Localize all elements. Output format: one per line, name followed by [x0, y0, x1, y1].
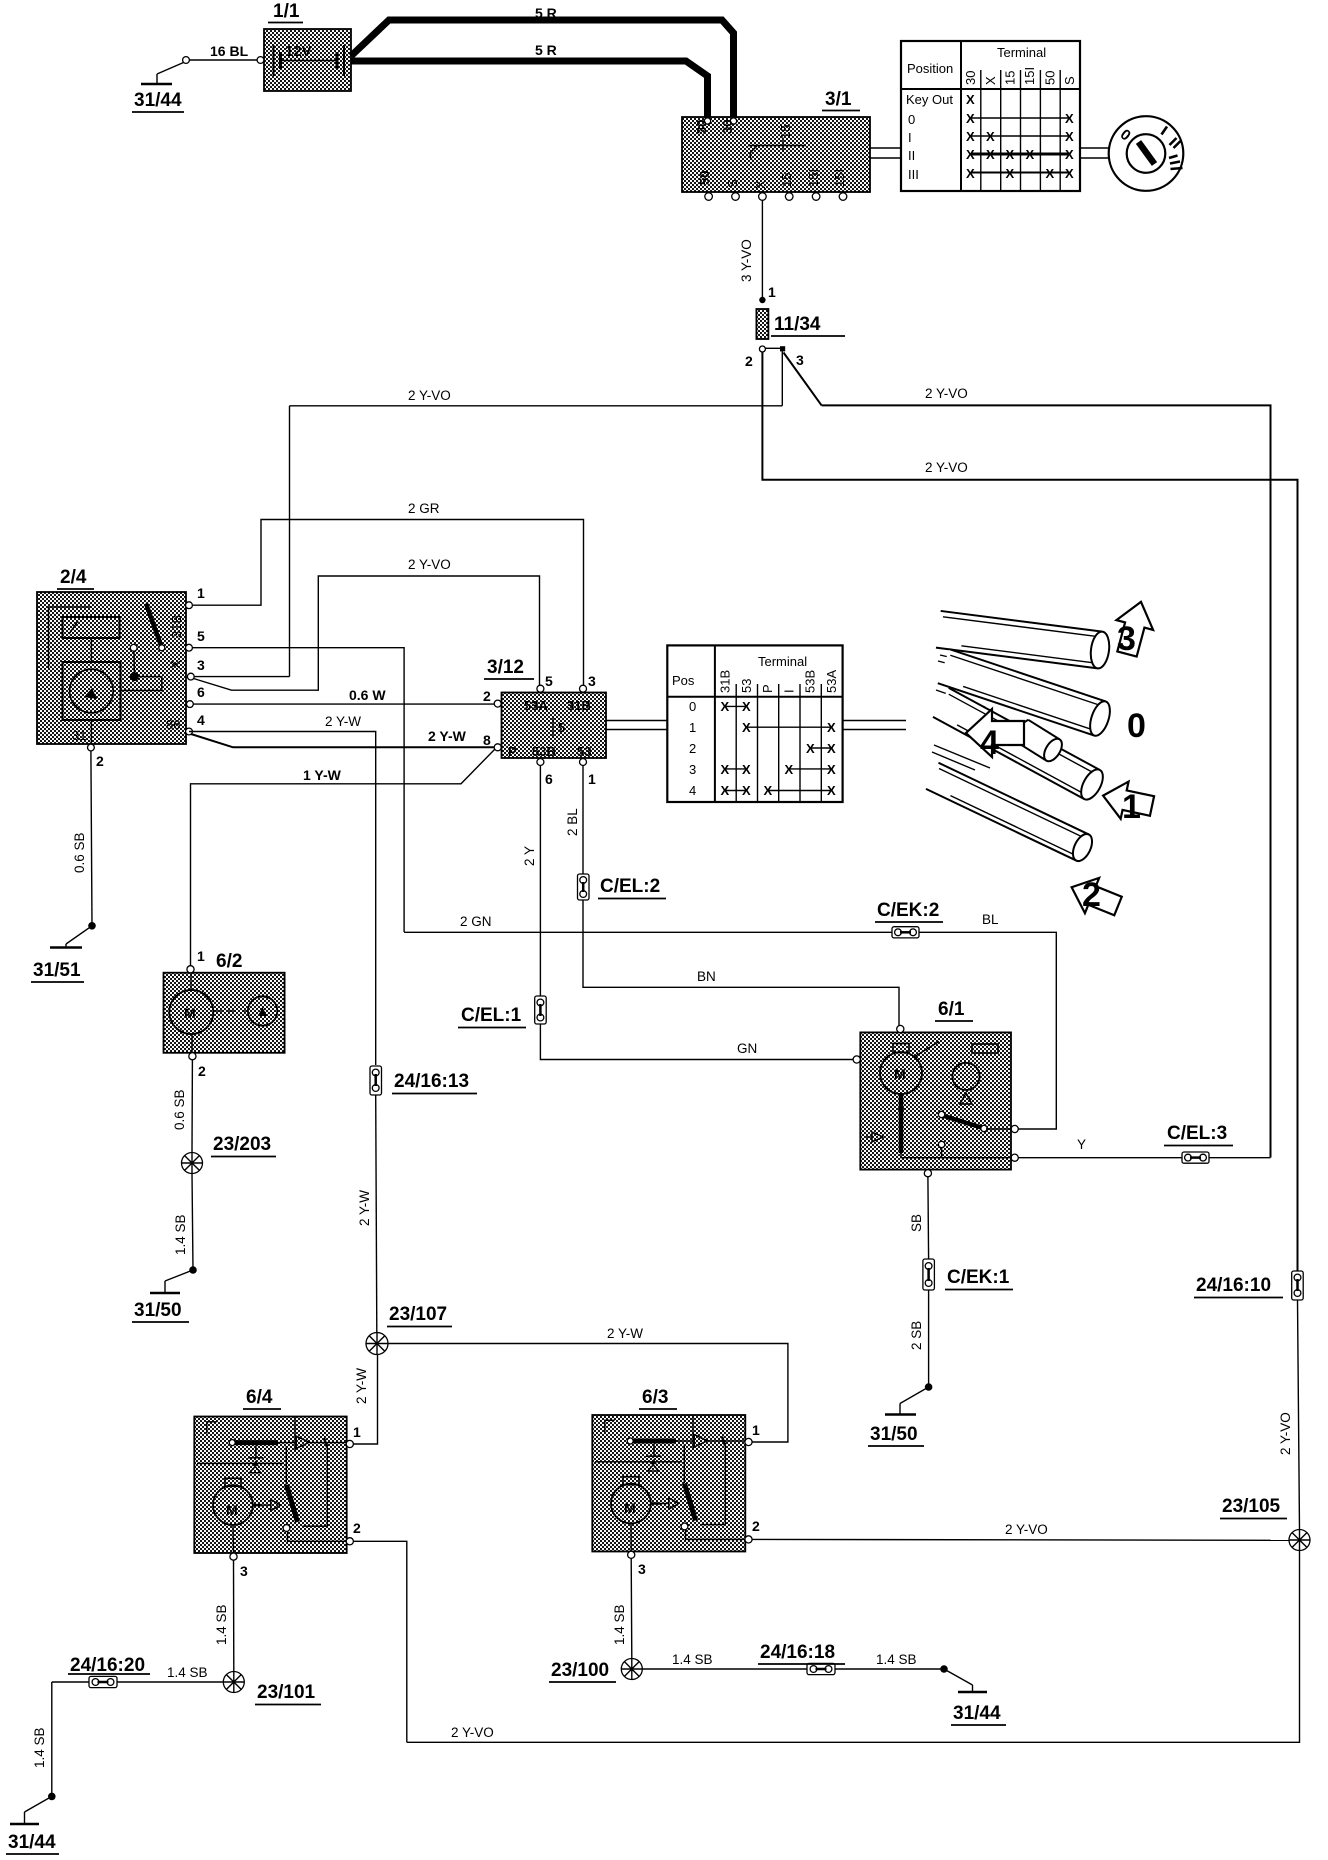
svg-text:X: X [742, 783, 751, 798]
svg-text:BL: BL [982, 912, 999, 927]
svg-text:2 Y-W: 2 Y-W [325, 714, 361, 729]
ground 31/50 left [132, 1266, 197, 1322]
ignition key [1109, 116, 1184, 191]
svg-text:X: X [827, 741, 836, 756]
svg-text:Terminal: Terminal [997, 45, 1046, 60]
svg-text:2 Y-W: 2 Y-W [428, 728, 467, 744]
svg-text:3: 3 [588, 673, 596, 689]
wire 2 SB to ground [928, 1290, 930, 1387]
svg-text:1: 1 [197, 948, 205, 964]
splice 23/101 [223, 1672, 244, 1693]
wire 2 GN / BL [404, 932, 1056, 1129]
svg-text:2: 2 [689, 741, 696, 756]
wire to ground 31/44 bl [51, 1682, 53, 1796]
svg-text:X: X [1065, 111, 1074, 126]
wiper arrow 1 [1099, 777, 1156, 825]
svg-text:3: 3 [689, 762, 696, 777]
svg-text:3 Y-VO: 3 Y-VO [739, 239, 754, 282]
svg-text:M: M [226, 1502, 238, 1518]
svg-text:X: X [1006, 147, 1015, 162]
svg-text:X: X [966, 129, 975, 144]
wire 6/4 pin2 to bottom YVO [353, 1541, 406, 1742]
svg-text:S: S [1062, 76, 1077, 85]
svg-text:2 Y-VO: 2 Y-VO [1278, 1412, 1293, 1455]
connector 24/16:10 [1292, 1271, 1304, 1300]
svg-text:31/50: 31/50 [870, 1424, 918, 1445]
svg-text:X: X [966, 166, 975, 181]
svg-text:4: 4 [689, 783, 696, 798]
svg-text:M: M [624, 1500, 636, 1516]
svg-text:53B: 53B [803, 670, 818, 693]
svg-text:86: 86 [166, 717, 180, 732]
wire 23/105 to bottom [407, 1551, 1300, 1743]
wire 2 Y-VO left drop [289, 406, 291, 677]
label C/EK:2 [875, 900, 943, 922]
svg-text:1.4 SB: 1.4 SB [173, 1214, 188, 1255]
fuse 11/34 [756, 309, 768, 339]
label 23/107 [387, 1304, 452, 1327]
splice 23/100 [621, 1659, 642, 1680]
svg-text:2: 2 [1082, 876, 1101, 914]
svg-text:2/4: 2/4 [60, 567, 87, 588]
svg-text:II: II [908, 148, 915, 163]
svg-text:X: X [721, 762, 730, 777]
svg-text:31/44: 31/44 [8, 1832, 56, 1853]
svg-text:4: 4 [197, 712, 205, 728]
svg-text:50: 50 [697, 171, 712, 185]
svg-text:15I: 15I [1022, 67, 1037, 85]
ground 31/44 bottom left [6, 1793, 59, 1854]
ground 31/44 bottom right [940, 1665, 1006, 1725]
svg-text:Key Out: Key Out [906, 92, 953, 107]
connector C/EL:1 [535, 996, 547, 1024]
svg-text:C/EK:2: C/EK:2 [877, 900, 939, 921]
svg-text:31/44: 31/44 [953, 1703, 1001, 1724]
svg-text:31B: 31B [169, 615, 184, 638]
wire BN [583, 900, 899, 1026]
svg-text:X: X [827, 762, 836, 777]
wiper sketch rod 0 [938, 649, 1114, 738]
svg-text:Pos: Pos [672, 673, 695, 688]
svg-text:0.6 SB: 0.6 SB [72, 832, 87, 873]
svg-text:X: X [721, 699, 730, 714]
splice 23/107 [366, 1333, 388, 1355]
svg-text:X: X [986, 129, 995, 144]
svg-text:X: X [785, 762, 794, 777]
svg-text:53A: 53A [524, 698, 548, 713]
wire 2 BL from 3/12 pin1 [582, 766, 584, 875]
connector C/EK:2 [892, 927, 919, 938]
svg-text:31/51: 31/51 [33, 960, 81, 981]
svg-text:X: X [983, 76, 998, 85]
wire splice to 24/16:20 [52, 1681, 224, 1683]
position table [901, 41, 1080, 191]
svg-text:X: X [1065, 166, 1074, 181]
pos table 3/12 [667, 645, 842, 802]
ground 31/51 [31, 922, 96, 982]
wire right YVO down [1298, 1300, 1300, 1530]
svg-text:2 Y-VO: 2 Y-VO [925, 460, 968, 475]
wire node2 to node3 [765, 347, 780, 349]
svg-text:31B: 31B [718, 670, 733, 693]
ground 31/44 battery [132, 63, 184, 113]
cable 5R upper [351, 20, 734, 117]
svg-text:P: P [508, 744, 517, 759]
svg-text:23/203: 23/203 [213, 1134, 271, 1155]
svg-text:3: 3 [240, 1563, 248, 1579]
svg-text:30: 30 [720, 120, 735, 134]
label 24/16:20 [68, 1655, 150, 1676]
svg-text:31: 31 [72, 728, 86, 743]
svg-text:23/101: 23/101 [257, 1682, 316, 1703]
svg-text:53: 53 [577, 744, 591, 759]
wire 2 Y-W down to splice [376, 1095, 377, 1332]
relay 2/4 [37, 592, 194, 751]
svg-text:2 BL: 2 BL [565, 808, 580, 836]
label C/EK:1 [945, 1267, 1013, 1290]
svg-text:X: X [742, 720, 751, 735]
svg-text:1.4 SB: 1.4 SB [672, 1652, 713, 1667]
svg-text:M: M [894, 1066, 906, 1082]
svg-text:15: 15 [1003, 71, 1018, 85]
rear washer motor 6/3 label [639, 1387, 677, 1409]
svg-text:2 Y-VO: 2 Y-VO [925, 386, 968, 401]
washer motor 6/2 label [213, 951, 251, 973]
svg-text:31B: 31B [567, 698, 591, 713]
splice 23/105 [1289, 1530, 1310, 1551]
label 23/100 [549, 1660, 616, 1682]
svg-text:6/1: 6/1 [938, 999, 965, 1020]
svg-text:2 GN: 2 GN [460, 914, 492, 929]
svg-text:15: 15 [779, 173, 794, 187]
svg-text:2: 2 [353, 1520, 361, 1536]
wire pin4 to 24/16:13 [189, 732, 376, 1066]
wire 1 Y-W [191, 749, 496, 966]
svg-text:2 GR: 2 GR [408, 501, 440, 516]
label 23/105 [1220, 1496, 1287, 1519]
wire 2 Y-VO left [290, 405, 783, 407]
svg-text:0: 0 [689, 699, 696, 714]
wire 2 Y from 3/12 pin6 [539, 766, 541, 997]
wire GN to 6/1 [540, 1024, 853, 1060]
wire pin2 down [762, 352, 1297, 1271]
svg-text:Position: Position [907, 61, 953, 76]
svg-text:2: 2 [483, 688, 491, 704]
wiper switch 3/12 [494, 685, 606, 765]
connector 24/16:20 [89, 1676, 117, 1687]
svg-text:15I: 15I [806, 169, 821, 187]
wire 6/3 pin3 down [630, 1558, 633, 1658]
svg-text:15: 15 [778, 125, 793, 139]
svg-text:C/EK:1: C/EK:1 [947, 1267, 1010, 1288]
svg-text:24/16:13: 24/16:13 [394, 1071, 469, 1092]
svg-text:15I: 15I [832, 169, 847, 187]
wire pin3 to left Y-VO [194, 676, 289, 678]
svg-text:I: I [908, 130, 912, 145]
wire pos table to wiper sketch [843, 721, 906, 730]
battery 1/1 label [268, 1, 303, 23]
wire 3/1 to position table [870, 148, 901, 158]
svg-text:3/1: 3/1 [825, 89, 852, 110]
wiper switch 3/12 label [484, 657, 534, 679]
svg-text:X: X [721, 783, 730, 798]
svg-text:X: X [742, 762, 751, 777]
svg-text:2: 2 [745, 353, 753, 369]
svg-text:1 Y-W: 1 Y-W [303, 767, 342, 783]
wire splice to 24/16:18 [642, 1668, 944, 1670]
svg-text:6/4: 6/4 [246, 1387, 273, 1408]
svg-text:11/34: 11/34 [774, 314, 821, 335]
svg-text:Terminal: Terminal [758, 654, 807, 669]
svg-text:5: 5 [545, 673, 553, 689]
svg-text:53: 53 [739, 679, 754, 693]
label C/EL:3 [1164, 1123, 1233, 1146]
svg-text:2: 2 [198, 1063, 206, 1079]
svg-text:6/3: 6/3 [642, 1387, 668, 1408]
svg-text:23/107: 23/107 [389, 1304, 447, 1325]
connector 24/16:18 [807, 1663, 835, 1674]
wire table to key [1080, 148, 1109, 158]
wire 1.4 SB to ground [192, 1174, 193, 1271]
svg-text:0.6 SB: 0.6 SB [172, 1089, 187, 1130]
wire 0.6 SB pin2 down [91, 751, 92, 926]
wiper motor 6/1 [853, 1025, 1018, 1176]
wire 0.6 W [193, 703, 494, 705]
label C/EL:1 [458, 1005, 526, 1028]
svg-text:2 Y-W: 2 Y-W [357, 1190, 372, 1226]
ignition switch 3/1 [682, 117, 870, 200]
label 24/16:10 [1194, 1275, 1283, 1298]
wiper sketch rod 3 [936, 611, 1111, 670]
label 23/101 [255, 1682, 321, 1705]
svg-text:3: 3 [197, 657, 205, 673]
wire Y with C/EL:3 [1018, 1157, 1270, 1159]
svg-text:3: 3 [638, 1561, 646, 1577]
rear wiper motor 6/4 [194, 1417, 353, 1561]
svg-text:2 Y-W: 2 Y-W [354, 1368, 369, 1404]
svg-text:X: X [1046, 166, 1055, 181]
svg-text:GN: GN [737, 1041, 757, 1056]
svg-text:23/100: 23/100 [551, 1660, 609, 1681]
svg-text:X: X [966, 147, 975, 162]
wiper sketch rod 2 [926, 763, 1096, 864]
node 1 of 11/34 [759, 297, 765, 303]
svg-text:0: 0 [908, 112, 915, 127]
svg-text:X: X [806, 741, 815, 756]
svg-text:X: X [168, 660, 183, 669]
svg-text:1: 1 [588, 771, 596, 787]
svg-text:X: X [1006, 166, 1015, 181]
connector C/EK:1 [923, 1259, 935, 1290]
svg-text:X: X [764, 783, 773, 798]
svg-text:5 R: 5 R [535, 5, 557, 21]
svg-text:I: I [782, 689, 797, 693]
battery 1/1 [264, 29, 351, 91]
svg-text:2 Y-VO: 2 Y-VO [1005, 1522, 1048, 1537]
svg-text:1: 1 [353, 1424, 361, 1440]
wiper sketch rod 1 [933, 688, 1107, 803]
svg-text:1/1: 1/1 [273, 1, 300, 22]
svg-text:24/16:10: 24/16:10 [1196, 1275, 1271, 1296]
svg-text:2 Y-VO: 2 Y-VO [408, 388, 451, 403]
svg-text:1.4 SB: 1.4 SB [214, 1604, 229, 1645]
wire 16 BL [183, 43, 264, 63]
wiper arrow 2 [1065, 870, 1126, 924]
wire node3 diagonal [784, 353, 822, 406]
svg-text:3: 3 [796, 352, 804, 368]
relay 2/4 label [57, 567, 94, 589]
svg-text:2 SB: 2 SB [909, 1321, 924, 1350]
connector C/EL:3 [1182, 1152, 1209, 1163]
label 24/16:18 [758, 1642, 845, 1664]
splice 23/203 [182, 1153, 203, 1174]
wire pin3 diagonal branch [194, 576, 540, 690]
svg-text:1: 1 [768, 284, 776, 300]
wire splice to 6/3 pin1 [388, 1344, 788, 1443]
svg-text:31/50: 31/50 [134, 1300, 182, 1321]
svg-text:3/12: 3/12 [487, 657, 524, 678]
connector 24/16:13 [370, 1066, 382, 1095]
svg-text:50: 50 [1043, 71, 1058, 85]
label 23/203 [211, 1134, 276, 1157]
wire 6/4 pin3 down [233, 1560, 235, 1671]
svg-text:30: 30 [694, 120, 709, 134]
wiper arrow 4 [966, 709, 1024, 757]
svg-text:6/2: 6/2 [216, 951, 242, 972]
wire 2 Y-VO right [822, 405, 1271, 1157]
svg-text:3: 3 [1117, 620, 1136, 658]
wire 6/3 pin2 to 23/105 [752, 1538, 1290, 1541]
svg-text:C/EL:3: C/EL:3 [1167, 1123, 1227, 1144]
svg-text:6: 6 [545, 771, 553, 787]
svg-text:6: 6 [197, 684, 205, 700]
rear wiper motor 6/4 label [243, 1387, 281, 1409]
svg-text:X: X [966, 92, 975, 107]
svg-text:X: X [753, 180, 768, 189]
svg-text:30: 30 [963, 71, 978, 85]
ground 31/50 right [868, 1383, 932, 1446]
svg-text:X: X [827, 783, 836, 798]
wiper sketch small hub [1012, 718, 1066, 764]
svg-text:X: X [827, 720, 836, 735]
node 2 of 11/34 [759, 346, 765, 352]
connector C/EL:2 [578, 874, 590, 900]
svg-text:BN: BN [697, 969, 716, 984]
svg-text:1: 1 [689, 720, 696, 735]
svg-text:24/16:20: 24/16:20 [70, 1655, 145, 1676]
svg-text:1: 1 [752, 1422, 760, 1438]
wiper sketch fan lines [932, 655, 1018, 770]
wire 3/12 to pos table [606, 721, 667, 730]
node 3 of 11/34 [780, 346, 785, 351]
label 24/16:13 [392, 1071, 477, 1094]
wire 0.6 SB from 6/2 [191, 1060, 193, 1152]
svg-text:X: X [742, 699, 751, 714]
svg-text:4: 4 [980, 724, 999, 762]
svg-text:5: 5 [558, 720, 565, 735]
svg-text:31/44: 31/44 [134, 90, 182, 111]
svg-text:1: 1 [197, 585, 205, 601]
svg-text:53B: 53B [532, 744, 556, 759]
label C/EL:2 [598, 876, 666, 899]
svg-text:X: X [986, 147, 995, 162]
svg-text:2 Y-W: 2 Y-W [607, 1326, 643, 1341]
svg-text:III: III [908, 167, 919, 182]
wiper motor 6/1 label [935, 999, 973, 1021]
svg-text:12V: 12V [285, 43, 312, 60]
svg-text:2: 2 [96, 753, 104, 769]
svg-text:53A: 53A [824, 670, 839, 693]
ignition switch 3/1 label [822, 89, 860, 111]
svg-text:5 R: 5 R [535, 42, 557, 58]
svg-text:1.4 SB: 1.4 SB [32, 1727, 47, 1768]
svg-text:X: X [1026, 147, 1035, 162]
wire splice to 6/4 pin1 [353, 1355, 378, 1445]
svg-text:8: 8 [483, 732, 491, 748]
wire 2 GR [192, 520, 583, 686]
wire node3 drop [781, 351, 783, 405]
svg-text:16 BL: 16 BL [210, 43, 249, 59]
svg-text:0: 0 [1127, 707, 1146, 745]
svg-text:1.4 SB: 1.4 SB [167, 1665, 208, 1680]
svg-text:P: P [760, 684, 775, 693]
svg-text:1.4 SB: 1.4 SB [612, 1604, 627, 1645]
svg-text:2 Y-VO: 2 Y-VO [451, 1725, 494, 1740]
svg-text:X: X [1065, 129, 1074, 144]
svg-text:SB: SB [909, 1214, 924, 1232]
cable 5R lower [351, 61, 708, 117]
svg-text:0.6 W: 0.6 W [349, 687, 386, 703]
svg-text:Y: Y [1077, 1137, 1086, 1152]
svg-text:23/105: 23/105 [1222, 1496, 1281, 1517]
svg-text:C/EL:2: C/EL:2 [600, 876, 660, 897]
label 11/34 [771, 314, 845, 336]
svg-text:X: X [966, 111, 975, 126]
wire 3 Y-VO from 3/1 pin X [761, 200, 763, 297]
svg-text:M: M [184, 1005, 196, 1021]
svg-text:2: 2 [752, 1518, 760, 1534]
wiper arrow 3 [1109, 597, 1160, 659]
svg-text:2 Y-VO: 2 Y-VO [408, 557, 451, 572]
wire SB from 6/1 [927, 1177, 930, 1259]
rear washer motor 6/3 [592, 1415, 752, 1558]
wire pin5 to GN drop [192, 648, 404, 932]
svg-text:X: X [1065, 147, 1074, 162]
svg-text:5: 5 [197, 628, 205, 644]
svg-text:C/EL:1: C/EL:1 [461, 1005, 522, 1026]
svg-text:2 Y: 2 Y [522, 846, 537, 866]
svg-text:24/16:18: 24/16:18 [760, 1642, 835, 1663]
svg-text:S: S [725, 179, 740, 188]
svg-text:1: 1 [1122, 788, 1141, 826]
wire 2 Y-W to pin8 [191, 734, 494, 747]
washer motor 6/2 [164, 966, 285, 1060]
svg-text:1.4 SB: 1.4 SB [876, 1652, 917, 1667]
